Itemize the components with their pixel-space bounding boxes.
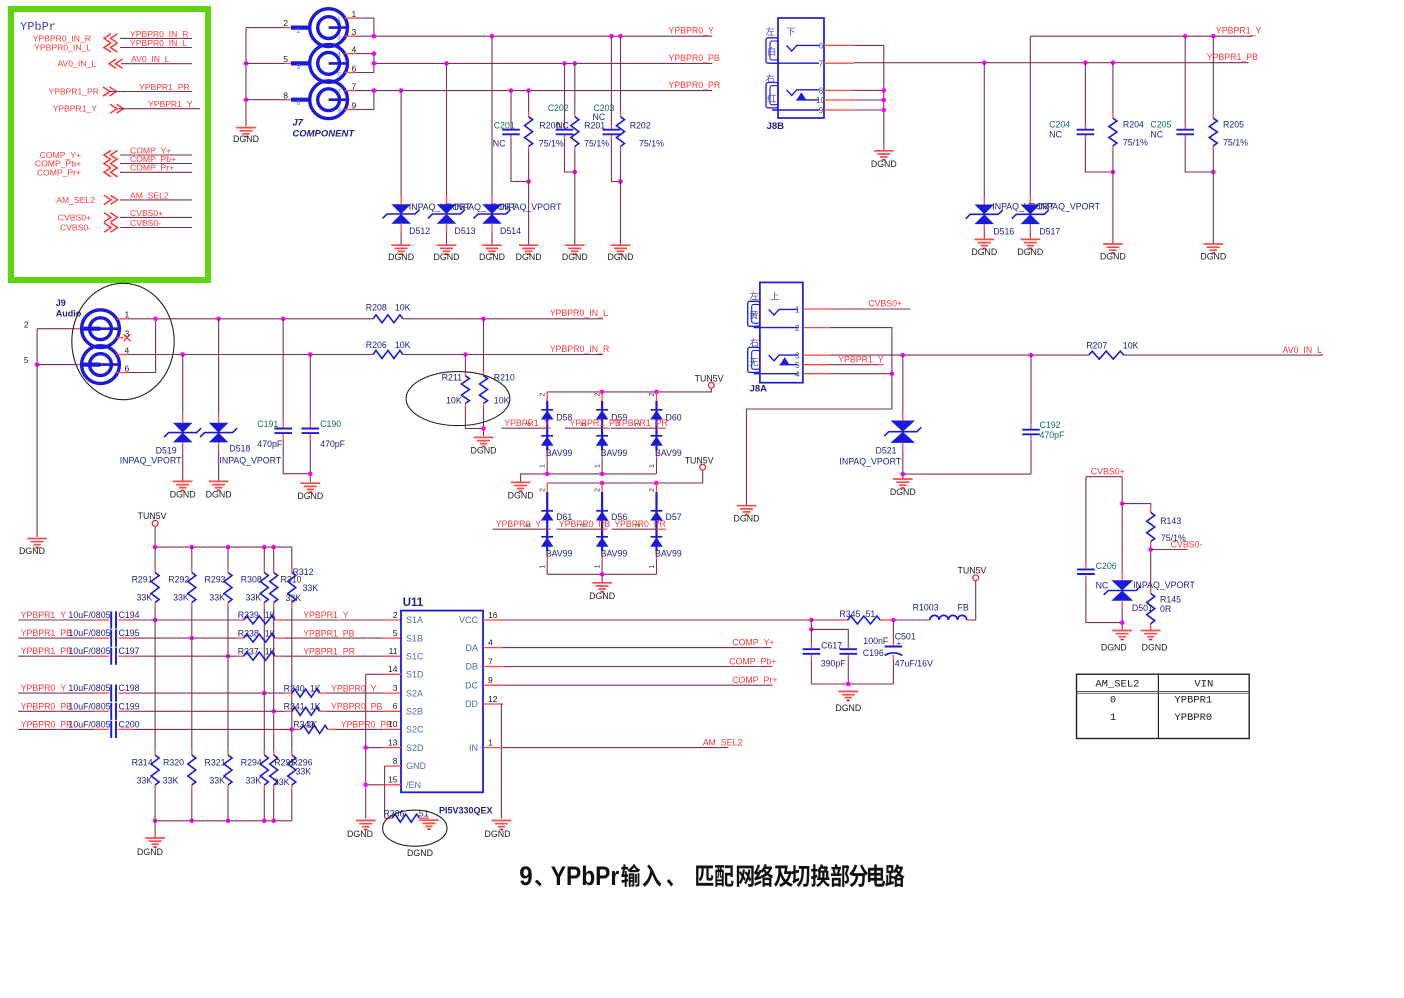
wire C202 branch	[564, 63, 566, 125]
svg-text:9: 9	[488, 675, 493, 685]
svg-text:1: 1	[352, 9, 357, 19]
svg-text:5: 5	[795, 361, 800, 370]
svg-text:DB: DB	[465, 662, 478, 672]
svg-text:YPBPR0_PB: YPBPR0_PB	[331, 702, 382, 712]
svg-text:YPBPR0_IN_L: YPBPR0_IN_L	[34, 43, 91, 53]
ground DGND R210	[474, 437, 494, 443]
svg-text:PI5V330QEX: PI5V330QEX	[439, 806, 493, 816]
wire column R312	[291, 547, 293, 567]
svg-text:YPBPR1_Y: YPBPR1_Y	[21, 610, 67, 620]
wire D514 drop	[491, 36, 493, 196]
wire DD gnd	[483, 703, 503, 705]
ground DGND R386	[419, 820, 439, 826]
svg-text:AV0_IN_L: AV0_IN_L	[131, 54, 170, 64]
wire J7 ground bus	[245, 28, 247, 127]
wire C617 drop	[810, 620, 812, 629]
junction C203	[609, 34, 614, 39]
svg-text:1: 1	[595, 565, 602, 569]
wire stub YPBPR0_PR	[612, 528, 657, 530]
wire YPBPR0_PB net	[356, 54, 374, 73]
diode D512	[391, 204, 411, 224]
svg-text:YPBPR0_IN_L: YPBPR0_IN_L	[130, 38, 187, 48]
svg-text:1: 1	[795, 306, 800, 315]
capacitor C195	[111, 630, 116, 647]
ground DGND D512	[391, 245, 411, 251]
junction C204	[1083, 60, 1088, 65]
junction C191	[281, 317, 286, 322]
capacitor C202	[556, 130, 574, 135]
resistor R296	[288, 755, 296, 785]
wire network top rail	[155, 546, 292, 548]
junction line1	[153, 618, 158, 623]
wire R211	[464, 355, 466, 372]
svg-text:9: 9	[819, 106, 824, 115]
svg-text:YPBPR0: YPBPR0	[1174, 712, 1212, 724]
resistor R143	[1147, 513, 1155, 542]
svg-text:BAV99: BAV99	[546, 549, 573, 559]
svg-text:33K: 33K	[246, 776, 262, 786]
J8A char zuo	[750, 292, 759, 300]
ground DGND R200	[519, 245, 539, 251]
junction pin6 link	[153, 317, 158, 322]
junction R200	[526, 88, 531, 93]
svg-text:6: 6	[393, 701, 398, 711]
svg-text:D513: D513	[455, 226, 476, 236]
connector J7 jack 1	[310, 9, 348, 47]
svg-text:R211: R211	[442, 373, 462, 383]
wire D516 drop	[983, 63, 985, 196]
svg-text:7: 7	[352, 81, 357, 91]
svg-text:75/1%: 75/1%	[1223, 138, 1248, 148]
J8B char hong	[767, 94, 776, 102]
junction D519	[180, 352, 185, 357]
svg-text:INPAQ_VPORT: INPAQ_VPORT	[500, 202, 562, 212]
resistor R321	[224, 755, 232, 785]
svg-text:390pF: 390pF	[821, 659, 847, 669]
svg-text:1K: 1K	[265, 646, 276, 656]
wire bottom rail gnd	[154, 821, 156, 838]
svg-text:R208: R208	[366, 303, 387, 313]
wire J8B pin6	[824, 44, 854, 46]
J8B socket upper	[766, 38, 778, 63]
J8A contact pin3	[769, 355, 798, 361]
junction S2D	[363, 745, 368, 750]
ground DGND D517	[1021, 239, 1041, 245]
wire R386 right	[419, 817, 429, 819]
svg-text:D516: D516	[993, 227, 1014, 237]
wire column R310	[273, 547, 275, 567]
svg-text:1: 1	[595, 464, 602, 468]
svg-text:1K: 1K	[265, 610, 276, 620]
resistor R312	[288, 573, 296, 603]
svg-text:J9: J9	[56, 298, 66, 308]
junction D514	[490, 34, 495, 39]
ground DGND D513	[437, 245, 457, 251]
wire R145	[1150, 588, 1152, 594]
svg-text:COMP_Pr+: COMP_Pr+	[37, 167, 81, 177]
resistor R320	[188, 755, 196, 785]
wire R205 branch	[1212, 36, 1214, 113]
svg-text:6: 6	[125, 363, 130, 373]
svg-text:4: 4	[125, 345, 130, 355]
svg-text:DGND: DGND	[407, 848, 433, 858]
connector J8A box	[760, 282, 803, 382]
resistor R337	[244, 652, 275, 660]
wire C201 branch	[510, 91, 512, 125]
wire rail2 bottom	[547, 573, 656, 575]
junction Y-pin3	[372, 34, 377, 39]
svg-text:YPBPR1_Y: YPBPR1_Y	[148, 99, 193, 109]
wire D521 drop	[902, 355, 904, 412]
resistor R211	[461, 376, 469, 404]
svg-text:33K: 33K	[274, 777, 290, 787]
resistor R207	[1089, 351, 1124, 359]
svg-text:R312: R312	[293, 567, 314, 577]
wire R210	[483, 319, 485, 371]
J7 pin1 stub	[345, 17, 356, 19]
svg-text:YPBPR1_PB: YPBPR1_PB	[1207, 52, 1258, 62]
wire C196 branch	[811, 629, 848, 643]
capacitor C198	[111, 685, 116, 702]
svg-text:R143: R143	[1160, 516, 1181, 526]
svg-text:4: 4	[795, 370, 800, 379]
wire network bottom rail	[155, 820, 292, 822]
svg-text:YPBPR0_PB: YPBPR0_PB	[668, 53, 719, 63]
svg-text:8: 8	[283, 90, 288, 100]
wire J9 pin2	[37, 328, 75, 330]
svg-text:R206: R206	[366, 340, 387, 350]
svg-text:2: 2	[649, 488, 656, 492]
J8A switch pin5	[780, 364, 799, 366]
resistor R340	[292, 689, 320, 697]
svg-text:33K: 33K	[303, 583, 319, 593]
capacitor C194	[111, 611, 116, 628]
ground DGND DD	[492, 821, 512, 827]
table header line	[1077, 692, 1250, 694]
svg-text:8: 8	[819, 87, 824, 96]
resistor R310	[270, 573, 278, 603]
junction line2	[190, 636, 195, 641]
svg-text:33K: 33K	[209, 593, 225, 603]
diode D521	[891, 421, 916, 443]
svg-text:1: 1	[649, 464, 656, 468]
capacitor C197	[111, 648, 116, 665]
svg-text:1: 1	[337, 16, 341, 23]
svg-text:R291: R291	[132, 575, 153, 585]
capacitor C199	[111, 703, 116, 720]
svg-text:100nF: 100nF	[863, 636, 889, 646]
wire rail2 gnd drop	[601, 574, 603, 583]
svg-text:10uF/0805: 10uF/0805	[68, 683, 110, 693]
svg-text:D517: D517	[1039, 227, 1060, 237]
junction PB-pin4	[372, 51, 377, 56]
svg-text:DGND: DGND	[206, 490, 232, 500]
wire GND pin	[385, 765, 401, 767]
svg-text:DGND: DGND	[388, 252, 414, 262]
svg-text:R338: R338	[238, 628, 259, 638]
wire line YPBPR1_PR left	[18, 655, 95, 657]
junction line5	[271, 709, 276, 714]
junction top rail x264.3	[262, 545, 267, 550]
resistor R210	[480, 376, 488, 404]
ellipse around R211 R210	[406, 372, 510, 426]
inductor R1003	[926, 619, 930, 621]
J8B char bai	[768, 47, 775, 56]
J9 jack lead 2	[82, 327, 101, 331]
wire C501 branch	[892, 620, 894, 641]
svg-text:R293: R293	[204, 575, 225, 585]
J7 jack lead pin2	[291, 26, 310, 30]
wire YPBPR1_Y net	[1030, 35, 1252, 37]
J7 pin9 stub	[345, 109, 356, 111]
J9 pin3 no-connect	[117, 337, 125, 339]
ellipse around J9	[72, 283, 174, 399]
wire AM_SEL2	[483, 747, 503, 749]
resistor R208	[373, 315, 403, 323]
resistor R206	[373, 351, 403, 359]
svg-text:DA: DA	[465, 643, 478, 653]
ground DGND J8B	[874, 151, 894, 157]
svg-text:AM_SEL2: AM_SEL2	[1095, 679, 1139, 691]
wire D518 drop	[218, 319, 220, 414]
svg-text:10uF/0805: 10uF/0805	[68, 719, 110, 729]
diode D59	[601, 392, 603, 401]
junction R205 bottom	[1211, 170, 1216, 175]
svg-text:7: 7	[819, 59, 824, 68]
wire YPBPR0_Y net	[356, 18, 374, 36]
svg-text:DGND: DGND	[971, 247, 997, 257]
svg-text:1K: 1K	[265, 628, 276, 638]
resistor R339	[244, 616, 275, 624]
wire line6 mid	[118, 728, 132, 730]
junction rail2b c2	[600, 572, 605, 577]
svg-text:C197: C197	[119, 646, 140, 656]
resistor R204	[1109, 118, 1117, 146]
svg-text:12: 12	[488, 694, 498, 704]
J7 pin6 stub	[345, 72, 356, 74]
wire VCC	[483, 619, 503, 621]
svg-text:TUN5V: TUN5V	[685, 456, 714, 466]
svg-text:R339: R339	[238, 610, 259, 620]
J8B switch pin10	[796, 99, 819, 101]
svg-text:YPBPR1_Y: YPBPR1_Y	[303, 610, 349, 620]
junction top rail x191.8	[190, 545, 195, 550]
resistor R293	[224, 573, 232, 603]
capacitor C201	[502, 130, 520, 135]
wire R386 left stub	[385, 817, 393, 819]
svg-text:S2D: S2D	[406, 743, 424, 753]
svg-text:CVBS0+: CVBS0+	[130, 208, 163, 218]
junction C190	[308, 352, 313, 357]
svg-text:C198: C198	[119, 683, 140, 693]
diode D61	[546, 483, 548, 492]
svg-text:DGND: DGND	[137, 847, 163, 857]
capacitor C192	[1022, 430, 1040, 435]
svg-text:D521: D521	[876, 446, 897, 456]
junction line4	[262, 691, 267, 696]
svg-text:YPBPR0_PR: YPBPR0_PR	[668, 80, 720, 90]
op-amp U11 box	[401, 611, 483, 793]
wire J8B gnd pin y90.4	[824, 89, 854, 91]
connector J7 jack 2	[310, 45, 348, 83]
svg-text:BAV99: BAV99	[546, 448, 573, 458]
wire COMP_Pb+	[483, 666, 503, 668]
svg-text:51: 51	[866, 609, 876, 619]
svg-text:33K: 33K	[246, 593, 262, 603]
J8B char zuo	[766, 27, 775, 35]
svg-text:AM_SEL2: AM_SEL2	[703, 738, 743, 748]
svg-text:2: 2	[24, 319, 29, 329]
diode D519	[173, 423, 193, 443]
svg-text:S2C: S2C	[406, 725, 424, 735]
junction J9 pin5	[35, 362, 40, 367]
svg-text:10K: 10K	[494, 396, 510, 406]
svg-text:75/1%: 75/1%	[639, 138, 664, 148]
svg-text:S1A: S1A	[406, 615, 423, 625]
svg-text:C205: C205	[1150, 120, 1171, 130]
svg-text:INPAQ_VPORT: INPAQ_VPORT	[1038, 202, 1100, 212]
junction bottom rail x191.8	[190, 819, 195, 824]
wire column R293	[227, 547, 229, 567]
svg-text:DGND: DGND	[1200, 252, 1226, 262]
wire CVBS0- stub	[1151, 549, 1188, 551]
svg-text:R320: R320	[163, 758, 184, 768]
junction bottom rail x228.0	[226, 819, 231, 824]
svg-text:NC: NC	[593, 112, 606, 122]
svg-text:10K: 10K	[395, 340, 411, 350]
junction top rail x273.7	[271, 545, 276, 550]
wire line4 right	[320, 692, 328, 694]
svg-text:D512: D512	[409, 226, 430, 236]
capacitor C617	[803, 649, 821, 654]
svg-text:TUN5V: TUN5V	[695, 374, 724, 384]
J9 jack lead 5	[82, 363, 101, 367]
wire D512 drop	[400, 91, 402, 196]
junction D518	[216, 317, 221, 322]
wire D521 to C192	[903, 473, 1031, 475]
wire stub YPBPR1_PB	[565, 427, 602, 429]
svg-text:VCC: VCC	[459, 615, 479, 625]
svg-text:1K: 1K	[310, 702, 321, 712]
svg-text:15: 15	[388, 775, 398, 785]
svg-text:CVBS0+: CVBS0+	[868, 299, 902, 309]
svg-text:YPBPR1_PR: YPBPR1_PR	[616, 418, 668, 428]
svg-text:0: 0	[1110, 695, 1116, 707]
resistor R341	[292, 707, 320, 715]
svg-text:COMP_Pr+: COMP_Pr+	[130, 163, 174, 173]
svg-text:YPBPR0_PR: YPBPR0_PR	[614, 519, 666, 529]
svg-text:DGND: DGND	[516, 252, 542, 262]
svg-text:470pF: 470pF	[320, 439, 346, 449]
ground DGND J7	[236, 128, 256, 134]
J8A socket lower	[748, 347, 760, 372]
svg-text:BAV99: BAV99	[655, 549, 682, 559]
wire line YPBPR0_PR left	[18, 728, 95, 730]
wire J8B gnd pin y110	[824, 109, 854, 111]
wire J9 pin4 net	[117, 354, 128, 356]
svg-text:7: 7	[488, 656, 493, 666]
svg-text:DGND: DGND	[485, 829, 511, 839]
svg-text:1: 1	[540, 464, 547, 468]
J8A sleeve pin2	[754, 327, 798, 329]
svg-text:S2A: S2A	[406, 688, 423, 698]
svg-text:C194: C194	[119, 610, 140, 620]
ground DGND J9	[27, 539, 47, 545]
wire J7 pin2	[246, 27, 285, 29]
svg-text:C196: C196	[863, 648, 884, 658]
wire J8B gnd pin y100	[824, 99, 854, 101]
diode D56	[601, 483, 603, 492]
svg-text:YPBPR0_PB: YPBPR0_PB	[21, 701, 72, 711]
svg-text:CVBS0+: CVBS0+	[1091, 467, 1125, 477]
capacitor C190	[302, 429, 320, 434]
junction C501 top	[891, 618, 896, 623]
diode D517	[1021, 205, 1041, 225]
svg-text:4: 4	[488, 637, 493, 647]
wire line YPBPR0_PB left	[18, 710, 95, 712]
junction J7 pin8	[244, 97, 249, 102]
svg-text:C201: C201	[494, 121, 515, 131]
svg-text:4: 4	[337, 52, 341, 59]
svg-text:S1C: S1C	[406, 651, 424, 661]
wire COMP_Y+	[483, 647, 503, 649]
junction line6	[290, 727, 295, 732]
svg-text:C206: C206	[1096, 561, 1117, 571]
svg-text:YPBPR1_PR: YPBPR1_PR	[303, 646, 355, 656]
wire C206 branch	[1085, 477, 1087, 563]
svg-text:YPBPR0_PR: YPBPR0_PR	[341, 720, 393, 730]
svg-text:R294: R294	[241, 758, 262, 768]
capacitor C501	[885, 646, 903, 648]
svg-text:DGND: DGND	[1100, 252, 1126, 262]
svg-text:DGND: DGND	[608, 252, 634, 262]
svg-text:33K: 33K	[136, 776, 152, 786]
wire IN_L right	[403, 318, 603, 320]
svg-text:YPBPR0_Y: YPBPR0_Y	[331, 683, 377, 693]
svg-text:D519: D519	[156, 446, 177, 456]
junction J8B gnd y90.4	[882, 88, 887, 93]
svg-text:CVBS0-: CVBS0-	[60, 223, 91, 233]
ground DGND D518	[209, 481, 229, 487]
svg-text:D57: D57	[666, 512, 682, 522]
svg-text:YPBPR0_PR: YPBPR0_PR	[21, 719, 73, 729]
svg-text:R201: R201	[584, 121, 605, 131]
wire line3 right	[275, 655, 283, 657]
svg-text:YPBPR1_PR: YPBPR1_PR	[48, 87, 99, 97]
svg-text:13: 13	[388, 737, 398, 747]
svg-text:NC: NC	[556, 121, 569, 131]
svg-text:/EN: /EN	[406, 780, 421, 790]
svg-text:CVBS0-: CVBS0-	[1171, 539, 1203, 549]
ground DGND R145	[1141, 631, 1161, 637]
svg-text:470pF: 470pF	[1040, 430, 1066, 440]
svg-text:FB: FB	[958, 603, 969, 613]
wire C190 branch	[309, 355, 311, 422]
junction C206 bottom	[1120, 620, 1125, 625]
wire line1 mid	[118, 619, 132, 621]
svg-text:COMP_Y+: COMP_Y+	[732, 638, 774, 648]
resistor R292	[188, 573, 196, 603]
resistor R342	[301, 725, 328, 733]
svg-text:10K: 10K	[446, 396, 462, 406]
svg-text:AM_SEL2: AM_SEL2	[130, 190, 169, 200]
svg-text:COMP_Pb+: COMP_Pb+	[729, 657, 776, 667]
svg-text:D514: D514	[500, 226, 521, 236]
svg-text:33K: 33K	[286, 593, 302, 603]
table divider vertical	[1157, 674, 1159, 738]
svg-text:2: 2	[297, 28, 301, 35]
svg-text:YPBPR1_Y: YPBPR1_Y	[504, 418, 550, 428]
